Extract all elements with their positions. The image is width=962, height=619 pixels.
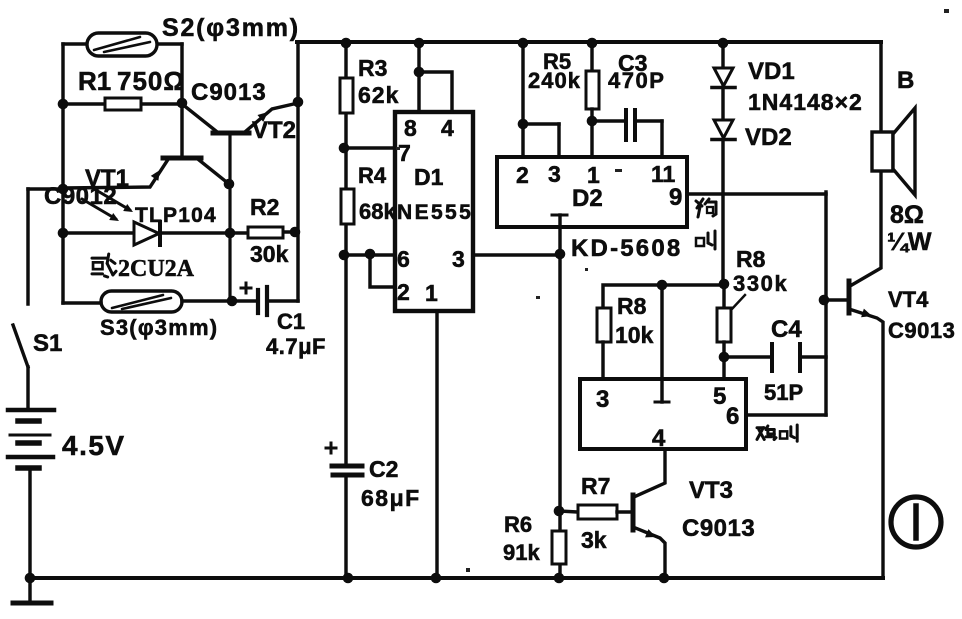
svg-text:10k: 10k: [615, 322, 654, 348]
svg-text:68μF: 68μF: [361, 485, 421, 511]
svg-text:R8: R8: [617, 293, 647, 319]
svg-text:R6: R6: [504, 512, 532, 537]
svg-text:NE555: NE555: [397, 201, 473, 224]
svg-text:470P: 470P: [608, 68, 665, 93]
svg-text:7: 7: [398, 140, 411, 166]
svg-text:C4: C4: [771, 316, 802, 343]
svg-text:6: 6: [397, 246, 410, 272]
svg-text:R1: R1: [78, 66, 111, 96]
svg-text:2: 2: [397, 279, 410, 305]
svg-text:330k: 330k: [733, 271, 788, 296]
svg-text:R8: R8: [736, 246, 766, 272]
svg-text:C1: C1: [277, 309, 305, 334]
svg-text:62k: 62k: [358, 82, 399, 108]
svg-text:R2: R2: [250, 194, 279, 220]
svg-text:S3(φ3mm): S3(φ3mm): [100, 315, 218, 340]
svg-text:2CU2A: 2CU2A: [118, 256, 195, 282]
svg-text:3k: 3k: [581, 527, 607, 553]
svg-text:3: 3: [548, 161, 561, 187]
svg-text:3: 3: [452, 246, 465, 272]
svg-text:68k: 68k: [359, 199, 396, 224]
svg-text:B: B: [897, 67, 914, 94]
svg-text:S1: S1: [33, 330, 62, 357]
svg-text:C9013: C9013: [888, 318, 955, 343]
svg-text:1: 1: [425, 280, 438, 306]
svg-text:30k: 30k: [250, 241, 289, 267]
svg-text:KD-5608: KD-5608: [571, 235, 682, 262]
svg-text:1N4148×2: 1N4148×2: [748, 89, 863, 115]
svg-text:D2: D2: [572, 185, 603, 212]
svg-text:9: 9: [669, 184, 682, 211]
svg-text:4: 4: [652, 425, 666, 452]
svg-text:R3: R3: [358, 55, 387, 81]
svg-text:R4: R4: [358, 163, 387, 188]
svg-text:3: 3: [596, 386, 609, 413]
svg-text:6: 6: [726, 403, 739, 430]
svg-text:S2(φ3mm): S2(φ3mm): [162, 14, 300, 42]
svg-text:D1: D1: [414, 164, 444, 190]
svg-text:R7: R7: [581, 473, 610, 499]
svg-text:C9013: C9013: [191, 79, 267, 106]
svg-text:¼W: ¼W: [887, 228, 932, 256]
svg-text:2: 2: [516, 162, 529, 188]
svg-text:TLP104: TLP104: [135, 204, 217, 227]
svg-text:5: 5: [713, 383, 726, 410]
svg-text:C9013: C9013: [682, 515, 755, 542]
svg-text:750Ω: 750Ω: [117, 66, 185, 96]
svg-text:51P: 51P: [764, 380, 803, 405]
svg-text:VT3: VT3: [689, 477, 733, 504]
svg-text:4: 4: [441, 115, 454, 141]
svg-text:8: 8: [404, 115, 417, 141]
svg-text:4.7μF: 4.7μF: [266, 334, 326, 359]
svg-text:C2: C2: [369, 456, 398, 482]
svg-text:VT2: VT2: [252, 117, 296, 144]
svg-text:VT4: VT4: [888, 287, 929, 312]
svg-text:VD2: VD2: [745, 124, 792, 151]
svg-text:240k: 240k: [528, 68, 581, 93]
svg-text:8Ω: 8Ω: [890, 201, 924, 229]
svg-text:91k: 91k: [503, 540, 540, 565]
svg-text:4.5V: 4.5V: [62, 430, 126, 461]
svg-text:C9012: C9012: [44, 183, 117, 210]
svg-text:VD1: VD1: [748, 58, 795, 85]
